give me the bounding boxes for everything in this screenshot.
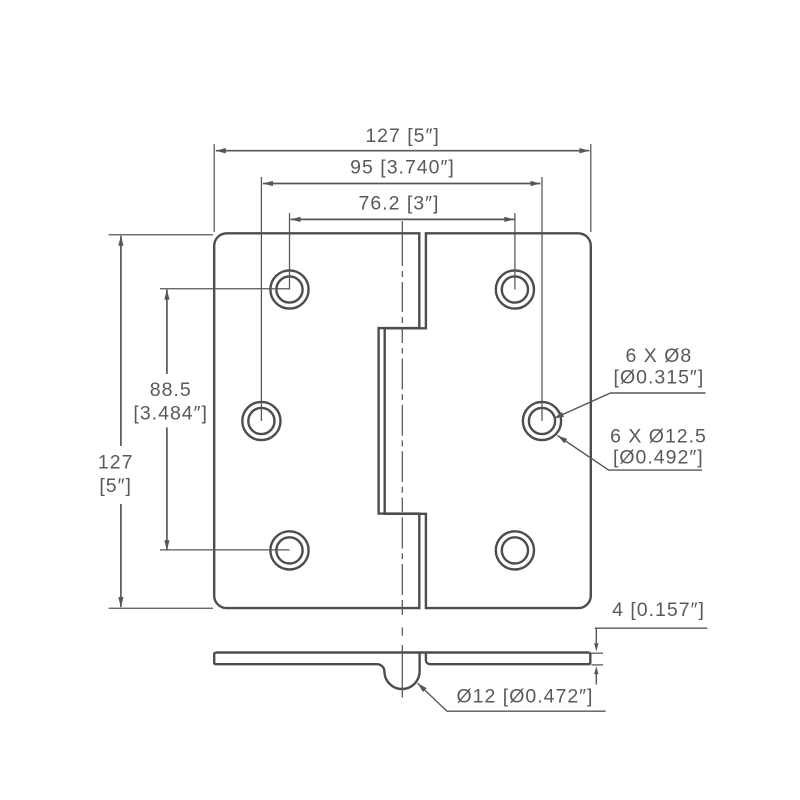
svg-text:6 X Ø8: 6 X Ø8 (626, 345, 693, 367)
svg-text:127: 127 (98, 452, 134, 474)
svg-text:76.2 [3″]: 76.2 [3″] (359, 192, 440, 214)
svg-text:[5″]: [5″] (99, 475, 132, 497)
svg-text:[Ø0.492″]: [Ø0.492″] (613, 447, 704, 469)
svg-text:127 [5″]: 127 [5″] (365, 125, 440, 147)
svg-text:6 X Ø12.5: 6 X Ø12.5 (610, 425, 707, 447)
svg-text:Ø12 [Ø0.472″]: Ø12 [Ø0.472″] (457, 686, 594, 708)
svg-text:[Ø0.315″]: [Ø0.315″] (614, 367, 705, 389)
svg-text:88.5: 88.5 (150, 379, 192, 401)
svg-text:[3.484″]: [3.484″] (133, 402, 208, 424)
svg-text:4 [0.157″]: 4 [0.157″] (612, 599, 705, 621)
svg-text:95 [3.740″]: 95 [3.740″] (350, 157, 455, 179)
